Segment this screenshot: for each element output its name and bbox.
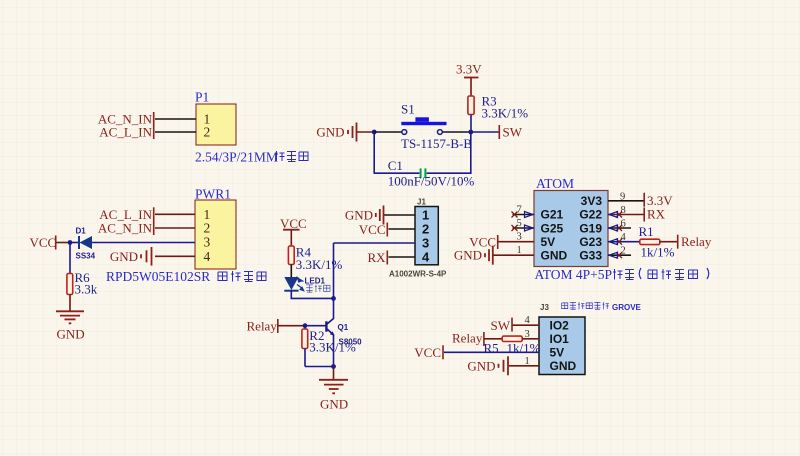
power module PWR1: [98, 187, 266, 285]
wire C1 bottom right: [427, 172, 472, 174]
power VCC above R4: [280, 216, 307, 247]
J1 pin 2 wire: [389, 228, 416, 230]
ATOM pin 5 input arrow: [525, 225, 534, 231]
S1 button bump: [415, 117, 429, 122]
svg-text:SW: SW: [503, 125, 523, 140]
R4 body: [288, 246, 294, 265]
wire emitter down: [333, 335, 335, 367]
svg-text:P1: P1: [195, 90, 209, 105]
connector P1: [98, 90, 308, 165]
svg-text:6: 6: [621, 219, 626, 230]
J3 pin 1 wire: [509, 365, 539, 367]
svg-text:100nF/50V/10%: 100nF/50V/10%: [388, 174, 475, 189]
svg-text:GND: GND: [57, 327, 85, 342]
svg-text:GROVE: GROVE: [612, 303, 642, 312]
svg-text:4: 4: [525, 315, 531, 326]
svg-text:G23: G23: [579, 235, 602, 249]
svg-text:D1: D1: [76, 227, 87, 236]
svg-text:G25: G25: [541, 221, 564, 235]
svg-text:G33: G33: [579, 249, 602, 263]
ATOM pin 8 noerc X: [616, 212, 622, 218]
R3 body: [468, 96, 474, 115]
SW bar at J3 pin4: [511, 318, 513, 332]
svg-text:2: 2: [204, 221, 211, 236]
ground below R6: [56, 311, 84, 323]
ATOM pin 3 wire: [498, 241, 534, 243]
node emitter/R2 junction: [331, 364, 336, 369]
power GND symbol at PWR1 pin4: [141, 247, 152, 266]
ATOM pin 2 noerc X: [616, 252, 622, 258]
power 3.3V above R3: [456, 62, 482, 97]
ground below Q1: [319, 380, 348, 394]
wire S1 pin2 to node: [442, 131, 471, 133]
ATOM pin 9 wire: [608, 200, 644, 202]
wire VCC to node: [57, 242, 71, 244]
Relay bar: [483, 332, 485, 346]
svg-text:A1002WR-S-4P: A1002WR-S-4P: [389, 270, 447, 279]
power GND symbol at ATOM pin1: [485, 246, 493, 265]
wire node to diode: [70, 242, 80, 244]
svg-text:SS34: SS34: [76, 252, 96, 261]
wire 3.3V to R3: [470, 78, 472, 97]
svg-text:LED1: LED1: [305, 277, 326, 286]
power GND symbol at J1 pin1: [376, 206, 384, 225]
svg-text:RX: RX: [367, 250, 386, 265]
wire node to base: [305, 325, 326, 327]
resistor R1: [639, 224, 712, 260]
wire C1 right vertical: [470, 132, 472, 174]
ATOM pin 4 noerc X: [616, 239, 622, 245]
wire R3 to node: [470, 115, 472, 133]
ATOM pin 2 input arrow: [609, 252, 618, 258]
svg-text:R5: R5: [484, 341, 499, 356]
wire GND to node: [357, 131, 374, 133]
net AC_N_IN bar: [153, 112, 155, 126]
svg-text:SW: SW: [491, 318, 511, 333]
svg-text:GND: GND: [345, 208, 373, 223]
diode D1: [70, 227, 195, 261]
wire C1 bottom left: [374, 172, 420, 174]
net Relay at Q1 base: [247, 319, 306, 334]
switch S1: [374, 102, 472, 152]
wire node to S1 pin1: [374, 131, 402, 133]
svg-text:GND: GND: [550, 359, 577, 373]
J3 comment 黑色立式直插GROVE: [562, 302, 609, 309]
svg-text:3.3K/1%: 3.3K/1%: [482, 106, 529, 121]
svg-text:G21: G21: [541, 208, 564, 222]
svg-text:J1: J1: [417, 198, 426, 207]
svg-text:S1: S1: [401, 102, 415, 117]
svg-text:1: 1: [422, 208, 429, 223]
wire LED corner to node: [291, 297, 333, 299]
wire node to collector: [333, 298, 335, 318]
svg-text:4: 4: [621, 232, 627, 243]
svg-text:TS-1157-B-B: TS-1157-B-B: [401, 136, 472, 151]
node S1/R3/SW junction: [468, 130, 473, 135]
svg-text:3V3: 3V3: [581, 194, 603, 208]
svg-text:AC_N_IN: AC_N_IN: [98, 221, 153, 236]
capacitor C1 loop: [374, 132, 475, 189]
wire R2 to bottom: [304, 349, 306, 367]
wire R4 to LED: [290, 265, 292, 278]
svg-text:C1: C1: [388, 158, 403, 173]
svg-text:Relay: Relay: [452, 331, 483, 346]
svg-text:3: 3: [422, 236, 429, 251]
RX bar at J1 pin4: [386, 251, 388, 265]
ATOM pin 8 input arrow: [609, 212, 618, 218]
resistor R5 body: [502, 336, 522, 341]
svg-text:G19: G19: [579, 221, 602, 235]
wire R1 to Relay: [660, 241, 678, 243]
svg-text:VCC: VCC: [359, 222, 386, 237]
wire node to R6: [69, 243, 71, 275]
svg-text:2.54/3P/21MM: 2.54/3P/21MM: [195, 150, 278, 165]
svg-text:GND: GND: [541, 249, 568, 263]
ATOM pin 6 wire: [608, 227, 631, 229]
J1 body: [415, 207, 438, 265]
R2 body: [302, 329, 308, 349]
D1 triangle: [80, 236, 93, 249]
net AC_L_IN bar: [153, 207, 155, 221]
svg-text:5: 5: [517, 218, 522, 229]
VCC bar: [442, 345, 444, 359]
wire node to ground: [333, 367, 335, 380]
VCC bar at ATOM pin3: [497, 235, 499, 249]
ATOM pin 7 wire: [513, 214, 535, 216]
J3 pin 2 wire VCC: [444, 351, 539, 353]
resistor R4: [288, 245, 342, 278]
svg-text:IO2: IO2: [550, 318, 570, 332]
ATOM pin 7 input arrow: [525, 212, 534, 218]
wire Relay to node: [278, 325, 305, 327]
svg-text:3: 3: [525, 329, 530, 340]
net AC_N_IN bar: [153, 221, 155, 235]
node VCC/D1/R6 junction: [68, 240, 73, 245]
svg-text:3.3k: 3.3k: [75, 282, 98, 297]
svg-text:2: 2: [204, 125, 211, 140]
wire node to SW: [471, 131, 499, 133]
LED1 comment 翠绿色: [306, 285, 330, 293]
PWR1 pin 4 wire: [155, 255, 195, 257]
power GND symbol left of S1: [316, 123, 374, 142]
wire LED to corner: [290, 291, 292, 300]
resistor R3: [468, 94, 528, 133]
P1 pin 1 wire: [155, 118, 196, 120]
ATOM pin 7 noerc X: [512, 212, 518, 218]
wire VCC to R4: [290, 230, 292, 247]
wire R6 to ground: [69, 295, 71, 312]
svg-text:8: 8: [621, 205, 626, 216]
LED LED1: [284, 277, 333, 300]
svg-text:GND: GND: [316, 125, 344, 140]
svg-text:5V: 5V: [550, 346, 565, 360]
svg-text:IO1: IO1: [550, 332, 570, 346]
svg-text:VCC: VCC: [30, 235, 57, 250]
VCC bar: [283, 229, 300, 231]
S1 pin1 circle: [402, 130, 407, 135]
wire Relay to R5: [484, 338, 503, 340]
svg-text:4: 4: [422, 250, 430, 265]
svg-text:GND: GND: [454, 248, 482, 263]
Q1 emitter diagonal: [327, 329, 334, 335]
resistor R2: [302, 326, 356, 367]
svg-text:3: 3: [517, 232, 522, 243]
net SW: [471, 125, 523, 140]
D1 cathode bar: [78, 236, 80, 249]
svg-text:GND: GND: [110, 249, 138, 264]
ATOM pin 4 input arrow: [609, 239, 618, 245]
PWR1 pin 1 wire: [155, 213, 195, 215]
svg-text:R1: R1: [639, 224, 654, 239]
svg-text:G22: G22: [579, 208, 602, 222]
ATOM pin 6 noerc X: [616, 225, 622, 231]
LED1 cathode bar: [284, 290, 298, 292]
svg-text:J3: J3: [540, 303, 549, 312]
svg-text:GND: GND: [320, 397, 348, 412]
svg-text:4: 4: [204, 249, 211, 264]
svg-text:5V: 5V: [541, 235, 556, 249]
svg-text:3.3K/1%: 3.3K/1%: [296, 257, 343, 272]
Relay bar: [677, 235, 679, 249]
Q1 emitter arrow: [330, 331, 335, 335]
ATOM pin 5 wire: [513, 227, 535, 229]
3.3V bar: [464, 77, 479, 79]
connector J3: [414, 302, 641, 375]
resistor R6: [67, 243, 98, 312]
svg-text:3.3K/1%: 3.3K/1%: [309, 340, 356, 355]
svg-text:VCC: VCC: [280, 216, 307, 231]
svg-text:Q1: Q1: [338, 323, 349, 332]
R6 body: [67, 274, 73, 295]
svg-text:1k/1%: 1k/1%: [641, 245, 675, 260]
P1 body: [196, 104, 236, 145]
module ATOM: [454, 176, 709, 282]
transistor Q1: [326, 298, 362, 366]
J1 pin 1 wire: [384, 214, 415, 216]
svg-text:1k/1%: 1k/1%: [507, 341, 541, 356]
svg-text:Relay: Relay: [247, 319, 278, 334]
ATOM body: [534, 191, 608, 267]
Relay bar: [277, 319, 279, 333]
node LED/collector junction: [331, 296, 336, 301]
net AC_L_IN bar: [153, 125, 155, 139]
ATOM pin 5 noerc X: [512, 225, 518, 231]
VCC bar: [55, 236, 57, 250]
ATOM pin 2 wire: [608, 254, 631, 256]
svg-text:ATOM: ATOM: [536, 176, 574, 191]
svg-text:GND: GND: [467, 358, 495, 373]
wire C1 left vertical: [373, 132, 375, 173]
svg-text:1: 1: [525, 356, 530, 367]
C1 plates: [420, 168, 422, 178]
PWR1 pin 2 wire: [155, 227, 195, 229]
ATOM pin 6 input arrow: [609, 225, 618, 231]
svg-text:RX: RX: [647, 207, 666, 222]
R1 body: [640, 239, 660, 244]
svg-text:VCC: VCC: [414, 345, 441, 360]
svg-text:7: 7: [517, 205, 522, 216]
ATOM pin 8 wire: [608, 214, 644, 216]
svg-text:3.3V: 3.3V: [456, 62, 482, 77]
svg-text:Relay: Relay: [681, 234, 712, 249]
wire J1 pin3 horizontal: [334, 242, 416, 244]
svg-text:2: 2: [621, 246, 626, 257]
ATOM pin 1 wire: [494, 254, 535, 256]
net VCC left: [30, 235, 71, 250]
Q1 base bar: [325, 321, 327, 331]
ATOM pin 4 wire: [608, 241, 640, 243]
PWR1 body: [195, 200, 236, 269]
svg-text:2: 2: [422, 222, 429, 237]
node base/R2 junction: [303, 323, 308, 328]
svg-text:PWR1: PWR1: [195, 187, 231, 202]
J3 body: [539, 317, 585, 375]
wire diode to PWR1 pin3: [92, 242, 195, 244]
svg-text:ATOM 4P+5P: ATOM 4P+5P: [535, 267, 613, 282]
S1 actuator bar: [401, 122, 446, 125]
VCC bar at J1 pin2: [386, 223, 388, 237]
J3 pin 3 wire: [522, 338, 539, 340]
wire J1 pin3 vertical: [333, 243, 335, 298]
svg-text:AC_L_IN: AC_L_IN: [99, 125, 152, 140]
connector J1: [334, 198, 448, 299]
J1 pin 4 wire: [389, 256, 416, 258]
Q1 collector diagonal: [327, 318, 334, 324]
LED1 arrows: [297, 278, 304, 291]
J3 pin 4 wire: [512, 324, 539, 326]
power GND symbol at J3 pin1: [499, 356, 509, 375]
3.3V bar at ATOM pin9: [643, 193, 645, 207]
svg-text:9: 9: [620, 191, 625, 202]
RX bar at ATOM pin8: [643, 208, 645, 222]
SW bar: [498, 125, 500, 139]
wire bottom horizontal: [305, 366, 334, 368]
wire node to R2: [304, 326, 306, 330]
S1 pin2 circle: [438, 130, 443, 135]
P1 pin 2 wire: [155, 131, 196, 133]
node C1/GND junction: [372, 130, 377, 135]
svg-text:3: 3: [204, 235, 211, 250]
svg-text:RPD5W05E102SR: RPD5W05E102SR: [106, 269, 210, 284]
svg-text:1: 1: [517, 245, 522, 256]
LED1 triangle: [284, 277, 298, 290]
